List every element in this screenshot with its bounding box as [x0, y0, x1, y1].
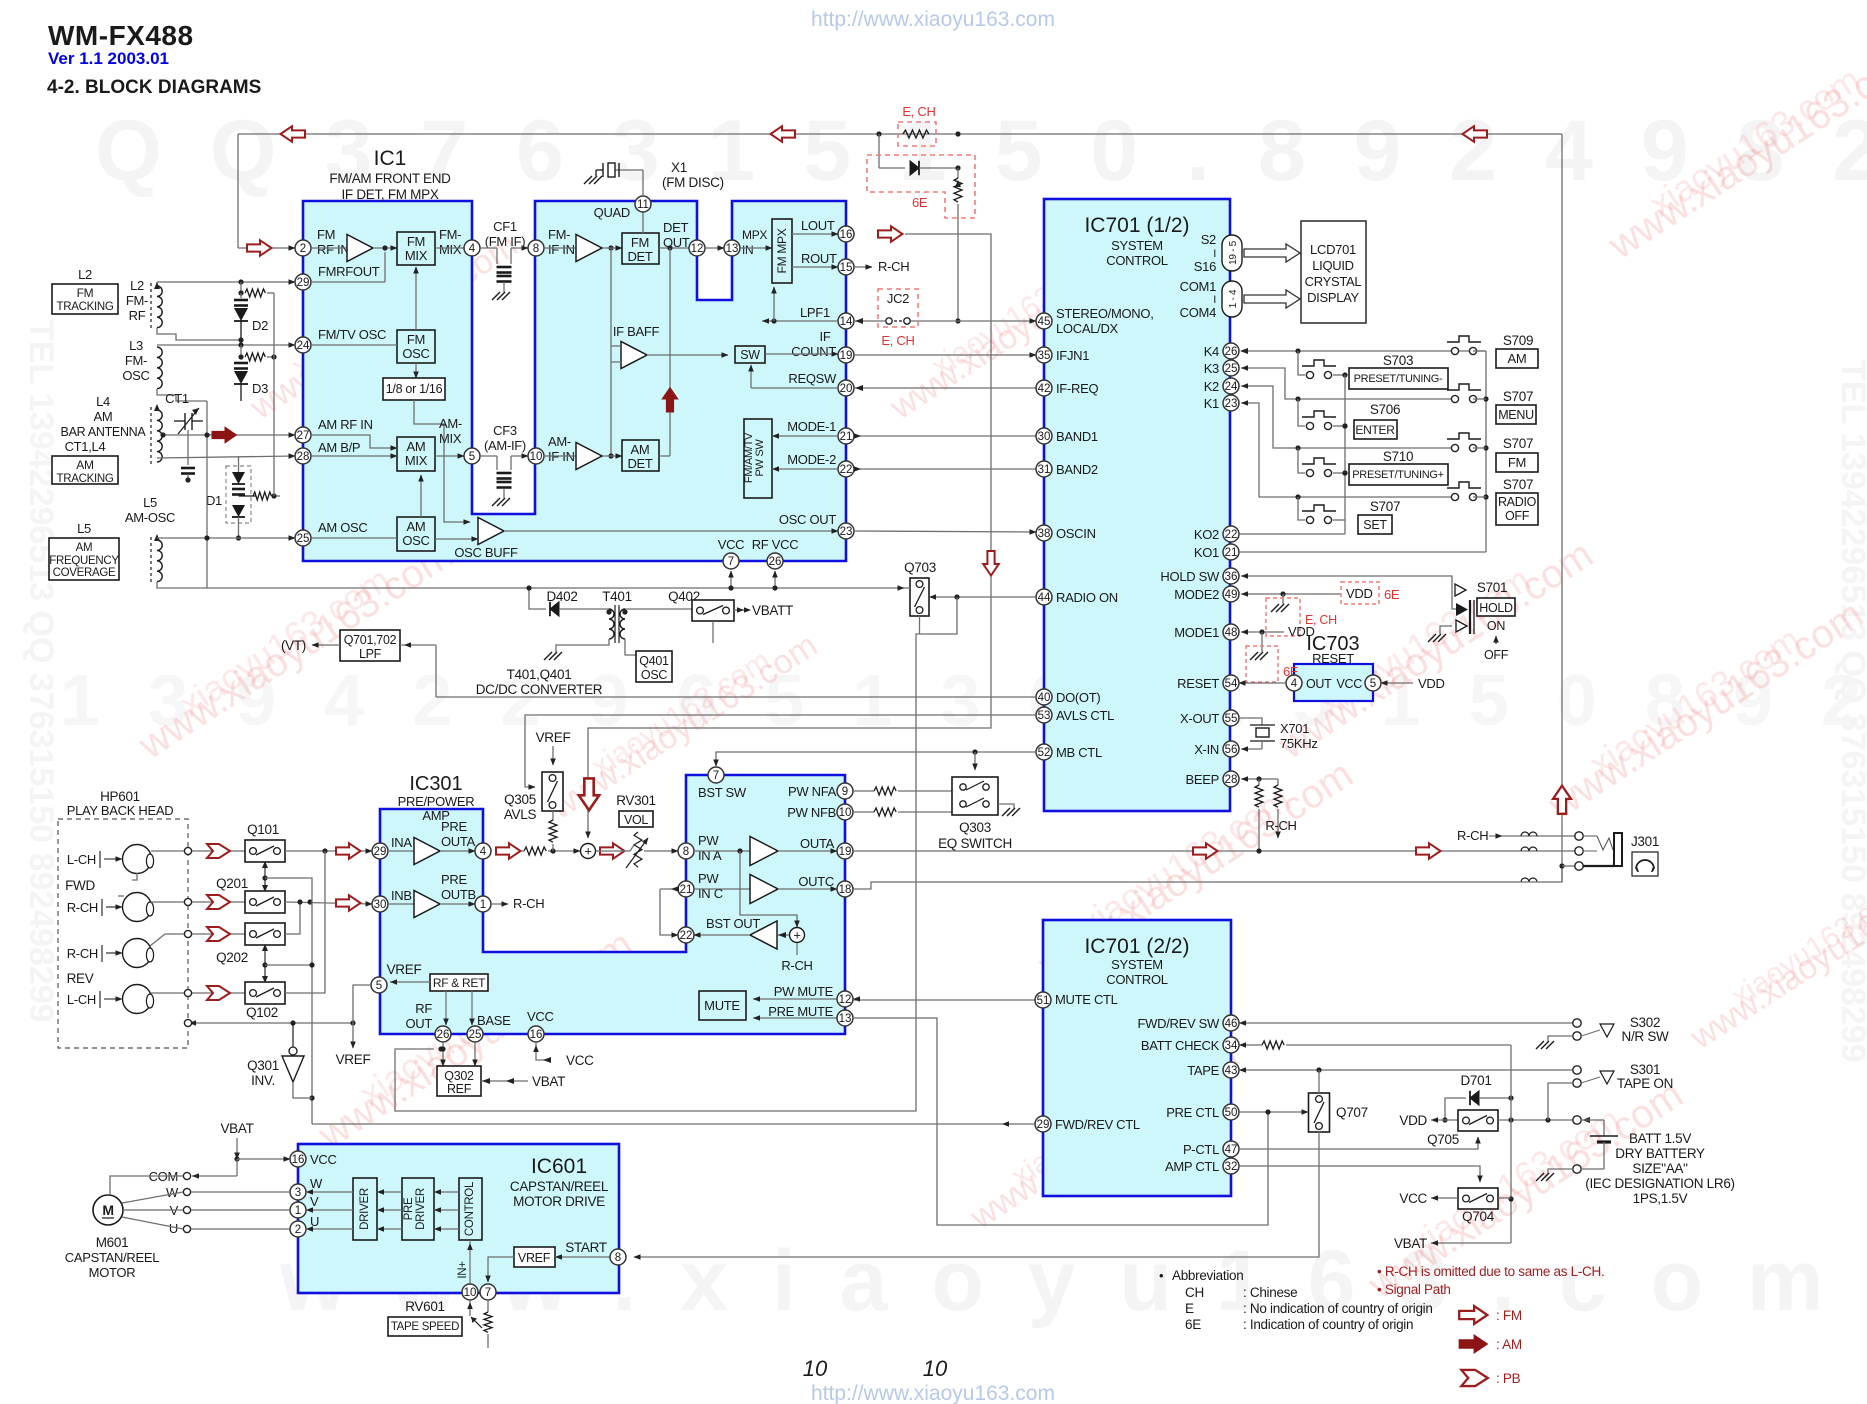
svg-text:29: 29 — [1037, 1119, 1050, 1131]
svg-text:•: • — [1159, 1268, 1164, 1283]
svg-text:LPF1: LPF1 — [800, 305, 830, 320]
pin 31 BAND2 — [1036, 461, 1052, 477]
svg-text:AM: AM — [94, 409, 113, 424]
pin 18 OUTC — [837, 881, 853, 897]
svg-text:X-IN: X-IN — [1194, 742, 1219, 757]
pin 21 PW IN C — [678, 881, 694, 897]
PB arrow row3 — [207, 927, 230, 941]
legend AM arrow — [1459, 1335, 1487, 1353]
OSC BUFF amp — [435, 538, 478, 540]
wire det out — [659, 247, 689, 249]
svg-text:VBATT: VBATT — [752, 603, 793, 618]
svg-text:AM: AM — [631, 442, 650, 457]
svg-text:1: 1 — [480, 899, 486, 911]
svg-text:12: 12 — [839, 994, 852, 1006]
svg-text:L-CH: L-CH — [67, 992, 96, 1007]
svg-text:AM: AM — [76, 542, 93, 554]
wire S709 out — [1473, 350, 1486, 352]
IC701 (1/2) system control block — [1044, 199, 1230, 811]
Q705 switch — [1458, 1110, 1498, 1131]
svg-text:DRIVER: DRIVER — [359, 1188, 371, 1230]
svg-text:QUAD: QUAD — [594, 205, 630, 220]
svg-text:• Signal Path: • Signal Path — [1377, 1282, 1451, 1297]
head return line — [188, 1022, 353, 1024]
svg-text:DO(OT): DO(OT) — [1056, 690, 1100, 705]
svg-text:FM-: FM- — [125, 353, 147, 368]
svg-text:http://www.xiaoyu163.com: http://www.xiaoyu163.com — [811, 8, 1055, 31]
svg-text:TAPE ON: TAPE ON — [1617, 1076, 1673, 1091]
svg-text:HOLD SW: HOLD SW — [1160, 569, 1220, 584]
KO2 bus vertical — [1344, 375, 1346, 534]
svg-text:L2: L2 — [78, 267, 92, 282]
svg-text:PRE MUTE: PRE MUTE — [768, 1004, 833, 1019]
FM arrow audio 1 — [1193, 843, 1218, 859]
svg-text:INA: INA — [391, 835, 412, 850]
red up arrow on common — [1553, 786, 1571, 814]
svg-text:M601: M601 — [96, 1235, 129, 1250]
wire RADIOOFF out — [1473, 496, 1486, 498]
svg-text:VREF: VREF — [336, 1052, 371, 1067]
svg-text:PW NFB: PW NFB — [787, 805, 836, 820]
svg-text:43: 43 — [1225, 1065, 1238, 1077]
svg-text:FM: FM — [631, 235, 649, 250]
svg-text:1: 1 — [295, 1205, 301, 1217]
svg-text:TRACKING: TRACKING — [56, 301, 113, 313]
resistor beep left — [1258, 779, 1260, 785]
svg-text:12: 12 — [691, 243, 704, 255]
svg-text:J301: J301 — [1631, 834, 1659, 849]
vertical common line right — [1561, 134, 1563, 882]
pin 51 MUTE CTL — [1035, 992, 1051, 1008]
pin 8 START — [555, 1256, 610, 1258]
svg-text:AM B/P: AM B/P — [318, 440, 360, 455]
svg-text:38: 38 — [1038, 528, 1051, 540]
svg-text:16: 16 — [292, 1154, 305, 1166]
svg-text:RF & RET: RF & RET — [433, 976, 486, 990]
svg-text:BAND2: BAND2 — [1056, 462, 1098, 477]
svg-text:19: 19 — [839, 846, 852, 858]
KO1 bus vertical — [1485, 351, 1487, 552]
svg-text:Q707: Q707 — [1336, 1105, 1368, 1120]
svg-text:R-CH: R-CH — [1457, 828, 1488, 843]
RF RET box — [430, 974, 488, 991]
svg-text:31: 31 — [1038, 464, 1051, 476]
svg-text:FM-: FM- — [548, 227, 570, 242]
wire S710 out — [1333, 472, 1345, 474]
svg-text:FWD/REV CTL: FWD/REV CTL — [1055, 1117, 1140, 1132]
RV601 pot — [487, 1300, 489, 1312]
pin 52 MB CTL — [1036, 744, 1052, 760]
svg-text:S703: S703 — [1383, 353, 1413, 368]
svg-text:BEEP: BEEP — [1186, 772, 1219, 787]
svg-text:DISPLAY: DISPLAY — [1307, 290, 1359, 305]
wire L3 bottom — [157, 389, 207, 401]
wire pin26 to Q302 — [442, 1042, 444, 1066]
switch S701 HOLD — [1455, 584, 1466, 596]
pin 53 AVLS CTL — [1036, 707, 1052, 723]
svg-text:U: U — [310, 1214, 319, 1229]
PRE CTL wire — [1239, 1111, 1308, 1113]
svg-text:REQSW: REQSW — [788, 371, 837, 386]
wire K2 to S710 — [1298, 448, 1305, 473]
amp PRE A — [388, 850, 414, 852]
svg-text:MB CTL: MB CTL — [1056, 745, 1102, 760]
svg-text:10: 10 — [839, 807, 852, 819]
svg-text:FM: FM — [1508, 455, 1526, 470]
jack contacts J301 — [1562, 865, 1575, 867]
wire L4 tap to pin 27 — [163, 434, 295, 436]
svg-text:D3: D3 — [252, 381, 268, 396]
wire IFJN1 — [854, 354, 1036, 356]
svg-text:PRE: PRE — [403, 1197, 415, 1220]
FM arrow top right — [1463, 126, 1488, 142]
svg-text:IF IN: IF IN — [548, 242, 575, 257]
bst path — [740, 851, 797, 927]
pin 45 STEREO/MONO LOCAL/DX — [1036, 313, 1052, 329]
svg-text:10: 10 — [530, 451, 543, 463]
svg-text:8: 8 — [683, 846, 689, 858]
pin 8 PW IN A — [678, 843, 694, 859]
svg-text:AMP CTL: AMP CTL — [1165, 1159, 1219, 1174]
wire K4 to S703 — [1298, 351, 1305, 375]
svg-text:S707: S707 — [1503, 436, 1533, 451]
svg-text:PW MUTE: PW MUTE — [774, 984, 834, 999]
wire K2 line — [1241, 386, 1453, 448]
PB arrow row4 — [207, 986, 230, 1000]
PRE MUTE routing to pre ctl — [853, 1018, 1268, 1225]
svg-text:L3: L3 — [129, 338, 143, 353]
svg-text:ROUT: ROUT — [801, 251, 837, 266]
CONTROL bottom feed — [469, 1240, 471, 1284]
svg-text:KO1: KO1 — [1194, 545, 1219, 560]
switch S706 — [1306, 422, 1313, 429]
svg-text:48: 48 — [1225, 627, 1238, 639]
svg-text:VBAT: VBAT — [532, 1074, 565, 1089]
switch S709 — [1451, 347, 1458, 354]
wire BAND1 — [854, 435, 1036, 437]
wire diode branch — [878, 134, 880, 168]
EQ switch Q303 — [952, 777, 998, 815]
wire AM det out up to det node — [669, 248, 671, 440]
R-CH out of pin 15 — [854, 266, 872, 268]
svg-text:COM4: COM4 — [1180, 305, 1216, 320]
DRIVER box — [353, 1178, 377, 1240]
svg-text:14: 14 — [840, 316, 853, 328]
svg-text:1/8 or 1/16: 1/8 or 1/16 — [386, 382, 443, 396]
VREF to pin 7 — [488, 1257, 514, 1282]
BATT CHECK wire — [1239, 1044, 1262, 1046]
R-CH after pin1 — [491, 903, 508, 905]
amp AM-IF — [544, 455, 576, 457]
svg-text:R-CH: R-CH — [1265, 818, 1296, 833]
svg-text:23: 23 — [1225, 398, 1238, 410]
svg-text:AM-: AM- — [439, 416, 462, 431]
svg-text:3: 3 — [295, 1187, 301, 1199]
legend PB arrow — [1461, 1370, 1487, 1386]
svg-text:OUTA: OUTA — [441, 834, 476, 849]
svg-text:P-CTL: P-CTL — [1183, 1142, 1219, 1157]
AM arrow into pin 27 — [212, 427, 237, 443]
wire X-OUT — [1239, 718, 1262, 725]
switch S703 — [1306, 371, 1313, 378]
wire S706 out — [1333, 425, 1345, 427]
svg-text:FM MPX: FM MPX — [775, 228, 789, 273]
head R-CH REV — [123, 939, 152, 968]
svg-text:OUTA: OUTA — [800, 836, 835, 851]
svg-text:OSC: OSC — [402, 346, 429, 361]
svg-text:OUT: OUT — [405, 1016, 432, 1031]
svg-text:TEL 13942296513 QQ 376315150: TEL 13942296513 QQ 376315150 892498299 — [22, 320, 60, 1023]
svg-text:FM: FM — [317, 227, 335, 242]
svg-text:19 - 5: 19 - 5 — [1228, 240, 1239, 265]
wire left drop to pin 2 — [237, 134, 239, 248]
svg-text:RF: RF — [415, 1001, 432, 1016]
svg-text:26: 26 — [769, 556, 782, 568]
svg-text:VCC: VCC — [310, 1152, 337, 1167]
CONTROL box — [459, 1178, 482, 1240]
wire LPF right to DO(OT) — [400, 644, 436, 646]
jack spring — [1584, 836, 1613, 850]
svg-text:DRY BATTERY: DRY BATTERY — [1615, 1146, 1705, 1161]
svg-text:SW: SW — [740, 348, 760, 362]
svg-text:OSC: OSC — [402, 533, 429, 548]
svg-text:S301: S301 — [1630, 1062, 1660, 1077]
legend FM arrow — [1459, 1306, 1487, 1324]
svg-text:COVERAGE: COVERAGE — [53, 567, 116, 579]
svg-text:D2: D2 — [252, 318, 268, 333]
svg-text:COUNT: COUNT — [791, 344, 836, 359]
FM arrow audio 2 — [1416, 843, 1441, 859]
svg-text:K2: K2 — [1204, 379, 1219, 394]
pin 29 FMRFOUT — [295, 274, 311, 290]
svg-text:CT1,L4: CT1,L4 — [65, 439, 106, 454]
svg-text:10: 10 — [803, 1356, 828, 1381]
svg-text:CH: CH — [1185, 1285, 1204, 1300]
svg-text:BAR ANTENNA: BAR ANTENNA — [61, 425, 147, 439]
svg-text:S707: S707 — [1503, 477, 1533, 492]
svg-text:VCC: VCC — [527, 1009, 554, 1024]
svg-text:IFJN1: IFJN1 — [1056, 348, 1089, 363]
svg-text:24: 24 — [1225, 381, 1238, 393]
svg-text:S707: S707 — [1370, 499, 1400, 514]
svg-text:PW SW: PW SW — [754, 439, 766, 477]
svg-text:IC701 (1/2): IC701 (1/2) — [1084, 214, 1189, 237]
pin 23 OSC OUT — [838, 523, 854, 539]
svg-text:OSCIN: OSCIN — [1056, 526, 1096, 541]
trimmer CT1 — [184, 413, 186, 430]
svg-text:AM-: AM- — [548, 434, 571, 449]
Q704 right wire — [1498, 1197, 1511, 1199]
svg-text:1 3 9 4 2 2 9 6 5 1 3 6 3 1 5: 1 3 9 4 2 2 9 6 5 1 3 6 3 1 5 1 5 0 8 9 … — [60, 661, 1867, 741]
svg-text:MODE2: MODE2 — [1174, 587, 1219, 602]
wire Q102 up join — [285, 851, 325, 993]
pin 40 DO(OT) — [1036, 689, 1052, 705]
Q303 ground — [998, 804, 1014, 808]
FM MPX box — [740, 247, 772, 249]
resistor vertical right — [957, 168, 959, 178]
svg-text:HOLD: HOLD — [1479, 601, 1513, 615]
svg-text:E: E — [1185, 1301, 1194, 1316]
svg-text:VDD: VDD — [1418, 676, 1445, 691]
resistor above D3 — [240, 345, 242, 357]
svg-text:S710: S710 — [1383, 449, 1413, 464]
AMP CTL wire to Q704 — [1239, 1166, 1480, 1182]
svg-text:5: 5 — [469, 451, 475, 463]
svg-text:AM-OSC: AM-OSC — [125, 510, 175, 525]
wire RF VCC pin26 arrow — [774, 571, 776, 588]
svg-text:13: 13 — [839, 1013, 852, 1025]
wire pin25 to Q302 — [474, 1042, 476, 1066]
pin 19 OUTA — [837, 843, 853, 859]
pin 12 — [689, 240, 705, 256]
FM/AM/TV PW SW box — [744, 419, 772, 498]
svg-text:1 - 4: 1 - 4 — [1228, 289, 1239, 308]
svg-text:R-CH: R-CH — [67, 900, 98, 915]
pin5 to VREF left — [353, 985, 371, 1048]
svg-text:MODE-1: MODE-1 — [787, 419, 836, 434]
svg-text:Q302: Q302 — [444, 1069, 474, 1083]
svg-text:44: 44 — [1038, 592, 1051, 604]
svg-text:(VT): (VT) — [281, 638, 306, 653]
control bus to FWD/REV — [265, 878, 312, 1124]
VBAT into Q302 — [481, 1080, 528, 1082]
amp PRE B — [388, 903, 414, 905]
svg-text:S709: S709 — [1503, 333, 1533, 348]
IC701 (2/2) system control block — [1043, 920, 1231, 1196]
svg-text:19: 19 — [840, 350, 853, 362]
pin 4 — [435, 247, 464, 249]
svg-text:22: 22 — [1225, 529, 1238, 541]
svg-text:1PS,1.5V: 1PS,1.5V — [1633, 1191, 1688, 1206]
wire reset out — [1239, 682, 1286, 684]
P-CTL wire to Q705 — [1239, 1137, 1478, 1149]
svg-text:Q303: Q303 — [959, 820, 991, 835]
pin 4 pre outa — [440, 850, 475, 852]
svg-text:DC/DC CONVERTER: DC/DC CONVERTER — [476, 682, 603, 697]
svg-text:INV.: INV. — [251, 1073, 275, 1088]
wire Q202 up join — [285, 902, 300, 934]
wire S703 out — [1333, 374, 1345, 376]
pin 25 AM OSC — [295, 530, 311, 546]
svg-text:26: 26 — [1225, 346, 1238, 358]
svg-text:AM: AM — [1508, 351, 1527, 366]
svg-text:OSC: OSC — [122, 368, 149, 383]
wire VCC pin7 arrow — [730, 571, 732, 588]
svg-text:Q401: Q401 — [639, 654, 669, 668]
svg-text:DET: DET — [627, 249, 652, 264]
pin 38 OSCIN — [1036, 525, 1052, 541]
wire MENU out — [1473, 398, 1486, 400]
svg-text:Q102: Q102 — [246, 1005, 278, 1020]
svg-text:ENTER: ENTER — [1355, 423, 1395, 437]
svg-text:VREF: VREF — [536, 730, 571, 745]
svg-text:X701: X701 — [1280, 721, 1309, 736]
wire L2 bottom — [157, 328, 241, 340]
vertical bus left x207 — [206, 401, 208, 588]
pin 16 VCC ic601 — [290, 1151, 306, 1167]
diode D2 — [240, 293, 242, 298]
switch S707 RADIO OFF — [1451, 493, 1458, 500]
wire divider to osc buff — [414, 400, 470, 522]
svg-text:BST OUT: BST OUT — [706, 916, 760, 931]
svg-text:Abbreviation: Abbreviation — [1172, 1268, 1243, 1283]
svg-text:MOTOR DRIVE: MOTOR DRIVE — [513, 1194, 605, 1209]
svg-text:IC1: IC1 — [374, 147, 407, 170]
svg-text:(IEC DESIGNATION LR6): (IEC DESIGNATION LR6) — [1585, 1176, 1734, 1191]
wire BEEP — [1241, 778, 1278, 780]
wire T401 left bottom to ground — [598, 608, 609, 610]
svg-text:http://www.xiaoyu163.com: http://www.xiaoyu163.com — [811, 1382, 1055, 1404]
amp BST OUT — [750, 921, 777, 949]
svg-text:LOUT: LOUT — [801, 218, 835, 233]
svg-text:BAND1: BAND1 — [1056, 429, 1098, 444]
diode D3 — [234, 362, 248, 365]
svg-text:MODE1: MODE1 — [1174, 625, 1219, 640]
svg-text:FM/AM FRONT END: FM/AM FRONT END — [329, 171, 451, 186]
wire KO1 — [1239, 551, 1486, 553]
pin 28 AM B/P — [295, 448, 311, 464]
wire K3 to S706 — [1298, 399, 1305, 426]
wire bottom rail to DC/DC — [208, 587, 904, 589]
svg-text:MUTE: MUTE — [704, 998, 740, 1013]
svg-text:CF3: CF3 — [493, 423, 517, 438]
svg-text:OUTC: OUTC — [798, 874, 834, 889]
resistor E CH — [903, 130, 929, 138]
svg-text:CT1: CT1 — [165, 391, 189, 406]
wire IF-REQ — [854, 387, 1036, 389]
ground dashed E CH mode2 — [1282, 594, 1284, 604]
svg-text:42: 42 — [1038, 383, 1051, 395]
battery contact bottom — [1573, 1165, 1581, 1173]
svg-text:FWD: FWD — [65, 878, 95, 893]
svg-text:RV601: RV601 — [405, 1299, 445, 1314]
svg-text:6E: 6E — [1384, 587, 1400, 602]
FM OSC box — [397, 330, 435, 363]
svg-text:11: 11 — [637, 199, 649, 211]
FWD/REV SW wire — [1239, 1022, 1573, 1024]
svg-text:PRESET/TUNING-: PRESET/TUNING- — [1354, 373, 1443, 385]
svg-text:VCC: VCC — [566, 1053, 594, 1068]
svg-text:VOL: VOL — [624, 813, 648, 827]
AM TRACKING box — [52, 456, 118, 484]
svg-text:PW NFA: PW NFA — [788, 784, 837, 799]
svg-text:REV: REV — [67, 971, 94, 986]
wire IF node vertical — [610, 248, 612, 456]
svg-text:FM: FM — [77, 286, 94, 300]
svg-text:DRIVER: DRIVER — [415, 1188, 427, 1230]
coil L2 — [157, 286, 162, 328]
svg-text:22: 22 — [680, 930, 693, 942]
wire main rail into Q703 handled above — [904, 587, 910, 589]
PB arrow row1 — [207, 844, 230, 858]
FM arrow into pin 2 — [247, 240, 272, 256]
svg-text:REF: REF — [447, 1082, 472, 1096]
svg-text:OUT: OUT — [1306, 677, 1332, 691]
resistor NFA — [853, 790, 874, 792]
R-CH line to jack — [1502, 835, 1575, 837]
VREF box ic601 — [514, 1247, 555, 1267]
pin 26 RF OUT — [435, 1026, 451, 1042]
RF RET drops — [445, 991, 447, 1025]
wire Q201 to pin30 — [285, 902, 372, 904]
pin 30 INB — [372, 896, 388, 912]
svg-text:ON: ON — [1487, 619, 1505, 633]
headphone icon box — [1632, 852, 1658, 876]
wire L4 bottom to pin 28 — [157, 456, 295, 458]
svg-text:AM: AM — [407, 439, 426, 454]
wire pin16 VCC out — [536, 1042, 550, 1060]
wire VDD to pin5 — [1381, 682, 1413, 684]
